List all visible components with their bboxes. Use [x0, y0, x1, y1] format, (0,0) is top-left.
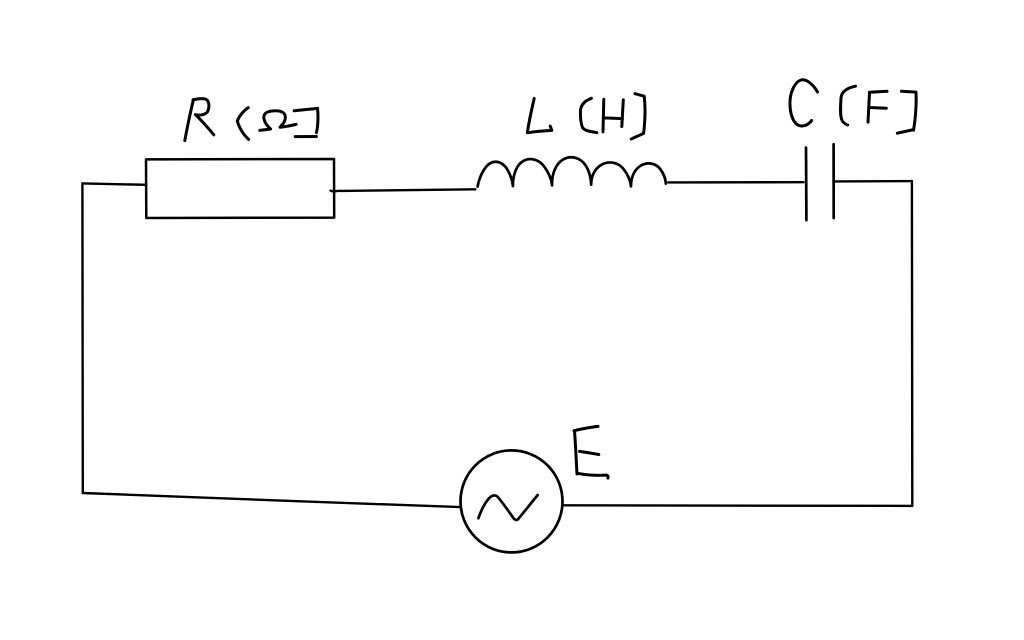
label: R letter [185, 100, 194, 141]
label: F letter [868, 91, 887, 122]
label: R opening bracket [237, 108, 248, 140]
label: C letter [790, 80, 818, 126]
wire: bottom-left from source to left corner (slightly sloped) [83, 493, 460, 507]
label: L letter [527, 98, 551, 132]
capacitor C1 left plate [805, 148, 808, 221]
AC source E circle [461, 450, 563, 552]
AC source sine wave [478, 495, 537, 520]
resistor R1 box [146, 159, 334, 218]
wire: top-left horizontal into resistor left terminal [82, 183, 146, 184]
label: C closing bracket [897, 91, 916, 133]
wire: capacitor right plate to top-right corner [836, 180, 912, 183]
label: E letter [574, 426, 608, 478]
inductor L1 coil (5 humps) [478, 157, 666, 186]
wire: right vertical down [911, 181, 914, 506]
label: L closing bracket [631, 94, 645, 139]
label: L opening bracket [580, 98, 596, 132]
label: R closing bracket [294, 108, 318, 136]
wire: left vertical (top-left corner down to bottom-left corner) [81, 183, 84, 493]
wire: resistor right terminal to inductor [331, 189, 476, 191]
label: H letter [603, 99, 623, 132]
label: C opening bracket [841, 86, 856, 125]
label: omega symbol [260, 111, 296, 131]
wire: bottom-right horizontal to source [563, 504, 912, 507]
wire: inductor to capacitor left plate [668, 181, 803, 184]
capacitor C1 right plate [832, 144, 835, 218]
